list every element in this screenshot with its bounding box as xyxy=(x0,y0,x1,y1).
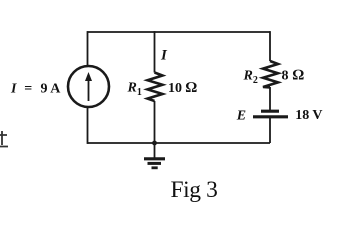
ground stub wire xyxy=(154,143,156,158)
resistor R1 zigzag xyxy=(148,73,163,102)
svg-text:8Ω: 8Ω xyxy=(282,68,305,84)
wire right branch upper xyxy=(269,31,271,61)
battery E plate bottom xyxy=(253,115,288,118)
current source arrow xyxy=(85,72,92,101)
svg-text:E: E xyxy=(236,108,246,123)
node junction dot xyxy=(152,141,157,146)
wire bottom rail xyxy=(88,142,271,144)
current source I xyxy=(68,66,109,107)
resistor R2 zigzag xyxy=(263,61,278,87)
page-edge text artifact xyxy=(0,131,8,147)
wire right branch middle xyxy=(269,87,271,110)
svg-text:Fig 3: Fig 3 xyxy=(171,177,218,203)
battery E plate top xyxy=(261,110,279,113)
svg-text:18 V: 18 V xyxy=(295,108,322,123)
ground symbol xyxy=(144,159,165,168)
svg-text:10 Ω: 10 Ω xyxy=(168,80,198,96)
wire right branch lower xyxy=(269,118,271,143)
wire middle branch upper xyxy=(154,31,156,72)
wire top rail xyxy=(88,31,271,33)
wire left branch upper xyxy=(87,31,89,66)
svg-text:I: I xyxy=(160,47,168,63)
wire middle branch lower xyxy=(154,101,156,143)
wire left branch lower xyxy=(87,107,89,144)
